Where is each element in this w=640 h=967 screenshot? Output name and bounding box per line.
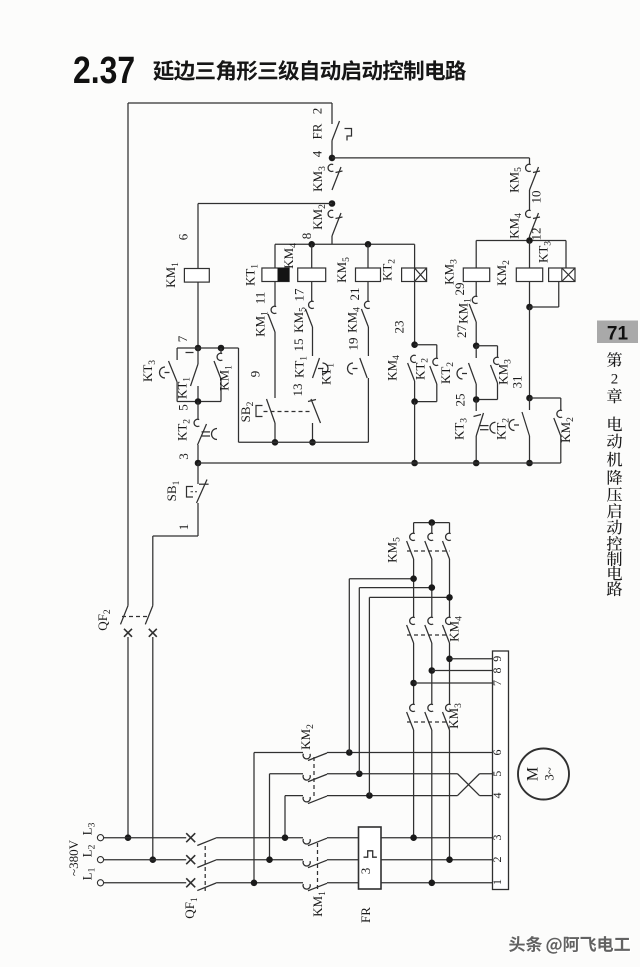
circuit breaker QF1 pole L1 xyxy=(186,878,195,887)
wire left rail top horizontal xyxy=(128,102,332,104)
wire branch B mid1 xyxy=(312,327,314,356)
pushbutton SB2 NO contact xyxy=(267,399,276,423)
contact KT1 delayed NO branch C xyxy=(360,358,367,378)
svg-text:25: 25 xyxy=(453,394,468,407)
svg-text:15: 15 xyxy=(291,339,306,352)
right coil feed bus xyxy=(476,240,566,242)
node 3 junction xyxy=(195,460,202,467)
contactor KM2 contact line5 xyxy=(303,775,310,780)
power line wire y837.7 xyxy=(104,837,187,839)
wire KM4a down xyxy=(413,643,415,704)
contactor KM3 contact c xyxy=(446,704,451,711)
contactor KM3 contact b xyxy=(428,704,433,711)
junction KM4 coil feed xyxy=(308,241,315,248)
node 4 xyxy=(329,155,336,162)
svg-text:9: 9 xyxy=(247,371,262,378)
junction branch D box top xyxy=(411,341,418,348)
wire delta col1 riser xyxy=(348,579,350,753)
wire node6 horizontal xyxy=(198,203,332,205)
junction KM3branch box top xyxy=(473,342,480,349)
contactor KM4 contact a xyxy=(410,617,415,624)
wire node6 down to KM1 coil xyxy=(197,204,199,269)
contact KT2 delayed NO KM2branch left xyxy=(529,398,531,410)
thermal relay FR heater box xyxy=(359,827,382,889)
svg-text:31: 31 xyxy=(510,376,525,389)
junction KM3c on L2 xyxy=(446,856,453,863)
svg-text:6: 6 xyxy=(176,233,191,240)
contactor KM1 main contact L3 xyxy=(303,839,310,844)
wire branch A bottom xyxy=(274,423,276,442)
KM5 shorting bus xyxy=(414,522,450,524)
SB2 bus vertical from node7 xyxy=(238,348,240,442)
contact KM4 NC xyxy=(526,210,531,217)
junction on L2 xyxy=(266,856,273,863)
wire KT3 coil bottom link xyxy=(530,306,559,308)
box top edge KM3branch xyxy=(476,345,497,347)
wire branch D to rail xyxy=(414,402,416,463)
coil KT2 with cross xyxy=(402,268,427,282)
contact KT2 NC delayed main branch xyxy=(197,402,199,420)
contact KM3 NO KM3branch right xyxy=(497,346,499,357)
contact KM2 NC xyxy=(328,210,333,217)
wire bus to KT3 coil xyxy=(565,241,567,269)
junction KM2branch box top xyxy=(526,395,533,402)
coil KM5 xyxy=(356,268,381,282)
wire node4 to right branch xyxy=(332,157,530,159)
pushbutton SB2 NC contact xyxy=(311,399,321,423)
SB2 bus horizontal xyxy=(239,441,369,443)
wire KM5b down xyxy=(431,559,433,617)
motor M circle xyxy=(518,749,569,800)
junction branch B on SB bus xyxy=(309,439,316,446)
thermal relay FR NC contact xyxy=(331,103,333,124)
svg-text:19: 19 xyxy=(346,338,361,351)
svg-text:21: 21 xyxy=(347,288,362,301)
contact KT2 NO branch D right xyxy=(436,345,438,358)
wire bus to KM2 coil xyxy=(529,241,531,269)
svg-text:FR: FR xyxy=(358,907,373,923)
contactor KM1 main contact L1 xyxy=(303,884,310,889)
box bottom edge KM3branch xyxy=(476,399,497,401)
wire KM4NC to right coil bus xyxy=(529,236,531,241)
coil KM1 xyxy=(184,269,209,283)
node 7 junction xyxy=(195,345,202,352)
svg-text:M: M xyxy=(525,767,542,781)
wire branch A middle xyxy=(274,332,276,398)
wire bus to KM3 coil xyxy=(475,241,477,269)
junction KM2 coil feed xyxy=(526,237,533,244)
wire branch B KM4 coil down xyxy=(311,282,313,302)
contactor KM2 contact line6 xyxy=(303,754,310,759)
junction box right edge top xyxy=(218,345,225,352)
wire KM5a down xyxy=(413,559,415,617)
wire KM2 branch mid xyxy=(529,307,531,398)
junction KM3b on L1 xyxy=(429,880,436,887)
wire branch C mid xyxy=(367,327,369,356)
wire node7 to parallel box right xyxy=(198,347,239,349)
parallel box KM1 contact right edge xyxy=(220,348,222,353)
wire branch C KM5 coil down xyxy=(367,282,369,302)
junction delta col2 on line5 xyxy=(356,770,363,777)
watermark 头条@阿飞电工 xyxy=(510,937,631,955)
svg-text:5: 5 xyxy=(176,404,191,411)
terminal L2 xyxy=(97,857,103,863)
power line wire y882.8 xyxy=(104,882,187,884)
contact KM2 NO KM2branch right xyxy=(560,398,562,410)
svg-text:6: 6 xyxy=(490,750,504,756)
wire delta col3 riser xyxy=(368,597,370,795)
contactor KM1 main contact L2 xyxy=(303,861,310,866)
wire to terminal 8 xyxy=(432,670,493,672)
contactor KM3 contact a xyxy=(410,704,415,711)
svg-text:7: 7 xyxy=(490,680,504,686)
coil KM4 xyxy=(298,268,326,282)
contactor KM2 contact line4 xyxy=(303,797,310,802)
wire right branch vertical xyxy=(529,158,531,164)
wire KM3 branch coil down xyxy=(475,282,477,297)
wire branch A KT1 coil down xyxy=(274,282,276,307)
junction KM2branch on rail 3 xyxy=(526,460,533,467)
wire left rail vertical xyxy=(127,103,129,606)
svg-text:27: 27 xyxy=(454,325,469,339)
junction on L1 xyxy=(251,880,258,887)
pushbutton SB1 NC contact xyxy=(197,463,199,484)
delay tick KT1 middle xyxy=(186,352,194,354)
mechanical link QF1 dashed xyxy=(204,846,206,891)
junction QF2 pole2 on L2 xyxy=(150,856,157,863)
wire bus to KM4 coil xyxy=(311,244,313,268)
svg-text:9: 9 xyxy=(490,656,504,662)
node 5 junction xyxy=(195,398,202,405)
junction col1 tap xyxy=(410,575,417,582)
wire KM3c down to L2 xyxy=(449,730,451,860)
coil feed bus left xyxy=(275,243,415,245)
svg-text:4: 4 xyxy=(490,793,504,799)
parallel box top left segment xyxy=(177,347,198,349)
node 6 junction xyxy=(329,200,336,207)
contactor KM5 contact c xyxy=(449,523,451,533)
junction col3 tap xyxy=(446,594,453,601)
junction branch D box bottom xyxy=(411,398,418,405)
junction branch D on rail 3 xyxy=(411,460,418,467)
contact KM4 NO branch C xyxy=(364,301,369,308)
contact KT2 delayed NO KM3branch left xyxy=(475,346,477,358)
mechanical link KM4 dashed xyxy=(407,634,450,636)
svg-text:3: 3 xyxy=(176,453,191,460)
junction QF2 pole1 on L3 xyxy=(125,834,132,841)
contactor KM4 contact b xyxy=(428,617,433,624)
svg-text:8: 8 xyxy=(490,668,504,674)
wire node1 down to QF2 xyxy=(152,536,154,606)
contactor KM5 contact b xyxy=(431,523,433,533)
contact KM4 NO branch D left xyxy=(411,355,416,362)
svg-text:17: 17 xyxy=(292,288,307,302)
parallel box KT1 contact middle xyxy=(197,348,199,364)
circuit breaker QF1 pole L2 xyxy=(186,855,195,864)
wire KM3a down to L3 xyxy=(413,730,415,838)
contact KM5 NC xyxy=(526,164,531,171)
circuit breaker QF2 pole 2 xyxy=(145,606,153,625)
wire delta col2 riser xyxy=(358,588,360,774)
svg-text:2: 2 xyxy=(310,108,325,115)
svg-text:8: 8 xyxy=(299,233,314,240)
junction KM3a on L3 xyxy=(410,834,417,841)
contactor KM4 contact c xyxy=(446,617,451,624)
mechanical link KM5 dashed xyxy=(407,550,450,552)
svg-text:7: 7 xyxy=(175,335,190,342)
junction on L3 xyxy=(282,834,289,841)
svg-text:2.37: 2.37 xyxy=(73,49,135,91)
svg-text:13: 13 xyxy=(290,384,305,397)
junction terminal9 tap xyxy=(446,656,453,663)
junction KT3 coil connect xyxy=(526,304,533,311)
rail 3 wire xyxy=(198,462,561,464)
mechanical link KM3 dashed xyxy=(407,721,450,723)
junction delta col3 on line4 xyxy=(366,792,373,799)
wire to terminal 9 xyxy=(450,658,493,660)
junction KM3branch on rail 3 xyxy=(473,460,480,467)
mechanical link KM2 dashed xyxy=(313,757,315,796)
mechanical link SB2 dashed xyxy=(264,411,313,413)
wire KM3b down to L1 xyxy=(431,730,433,883)
wire KM4b down xyxy=(431,643,433,704)
svg-text:5: 5 xyxy=(490,771,504,777)
wire KM4c down xyxy=(449,643,451,704)
coil KT3 with cross xyxy=(549,268,575,282)
contactor KM5 contact a xyxy=(413,523,415,533)
svg-text:29: 29 xyxy=(452,283,467,296)
wire line6 left vertical xyxy=(253,753,255,883)
svg-text:2: 2 xyxy=(611,372,619,388)
wire KM2 branch coil down xyxy=(529,282,531,308)
wire KM2NC to coil bus xyxy=(331,236,333,244)
junction delta col1 on line6 xyxy=(346,749,353,756)
coil KM3 xyxy=(463,268,489,282)
terminal strip box xyxy=(493,651,509,890)
parallel box bottom xyxy=(177,401,221,403)
parallel box KT3 contact left edge xyxy=(176,348,178,360)
svg-text:FR: FR xyxy=(310,123,325,139)
power line wire y859.7 xyxy=(104,859,187,861)
branch D box top edge xyxy=(415,344,437,346)
branch D box bottom edge xyxy=(415,401,437,403)
svg-text:3: 3 xyxy=(358,868,373,875)
page number box 71 xyxy=(597,321,638,344)
mechanical link QF2 dashed xyxy=(122,616,150,618)
svg-text:23: 23 xyxy=(392,321,407,334)
box top edge KM2branch xyxy=(530,397,561,399)
contact KM1 NO branch A xyxy=(271,306,276,313)
wire node1 horizontal xyxy=(153,535,198,537)
wire branch C bottom to SB bus xyxy=(367,378,369,442)
svg-text:71: 71 xyxy=(607,324,629,345)
wire bus to KM5 coil xyxy=(367,244,369,268)
svg-text:3: 3 xyxy=(490,835,504,841)
svg-text:2: 2 xyxy=(490,857,504,863)
contact KT3 NC delayed KM3branch xyxy=(475,400,477,412)
contact KT1 delayed NO branch B xyxy=(313,358,320,378)
svg-text:11: 11 xyxy=(253,292,268,305)
wire branch B bottom xyxy=(312,423,314,442)
junction branch A on SB bus xyxy=(272,439,279,446)
wire KM5c down xyxy=(449,559,451,617)
wire branch D KT2 coil down xyxy=(414,282,416,345)
svg-text:10: 10 xyxy=(528,191,543,204)
wire cross swap 5-4 xyxy=(458,774,480,796)
junction KM5 bus middle xyxy=(429,519,436,526)
junction terminal8 tap xyxy=(429,667,436,674)
circuit breaker QF1 pole L3 xyxy=(186,833,195,842)
contact KM3 NC xyxy=(328,164,333,171)
wire bus to KT2 coil xyxy=(414,244,416,268)
wire line4 left vertical xyxy=(284,796,286,838)
terminal L3 xyxy=(97,835,103,841)
circuit breaker QF2 pole 1 xyxy=(121,606,129,625)
coil KM2 xyxy=(516,268,542,282)
wire line5 left vertical xyxy=(269,774,271,860)
junction terminal7 tap xyxy=(410,680,417,687)
wire KM1 coil to node 7 xyxy=(197,282,199,348)
svg-text:1: 1 xyxy=(490,879,504,885)
wire to terminal 7 xyxy=(414,682,493,684)
coil KT1 with black block xyxy=(262,268,289,282)
svg-text:1: 1 xyxy=(176,524,191,531)
contact KM5 NO branch B xyxy=(309,301,314,308)
title text 延边三角形三级自动启动控制电路 xyxy=(153,60,174,80)
junction col2 tap xyxy=(429,584,436,591)
terminal L1 xyxy=(97,880,103,886)
wire bus to KT1 coil xyxy=(274,244,276,268)
junction KM5 coil feed xyxy=(365,241,372,248)
mechanical link KM1 dashed xyxy=(317,843,319,891)
junction KM3branch box bottom xyxy=(473,396,480,403)
svg-text:4: 4 xyxy=(310,150,325,157)
svg-text:3~: 3~ xyxy=(542,767,557,781)
contact KM1 NO KM3branch xyxy=(472,296,477,303)
